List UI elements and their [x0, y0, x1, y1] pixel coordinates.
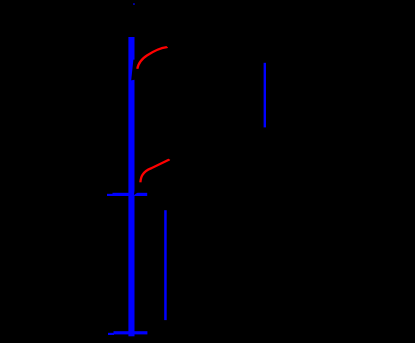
upper cap left thin part [107, 194, 113, 196]
black arrowhead 1 [131, 60, 139, 81]
thick blue vertical line [128, 37, 134, 336]
red arc 1 (upper transition curve) [137, 47, 167, 69]
bottom cap (horizontal blue tick) [114, 331, 148, 334]
upper cap (horizontal blue tick) [113, 193, 148, 196]
blue dot marker at top [133, 3, 135, 5]
lower thin blue vertical line [164, 210, 167, 320]
right thin blue vertical line [264, 63, 266, 128]
black arrowhead 2 [134, 175, 141, 195]
red arc 2 (lower transition curve) [140, 159, 169, 182]
bottom cap left thin part [108, 333, 114, 335]
